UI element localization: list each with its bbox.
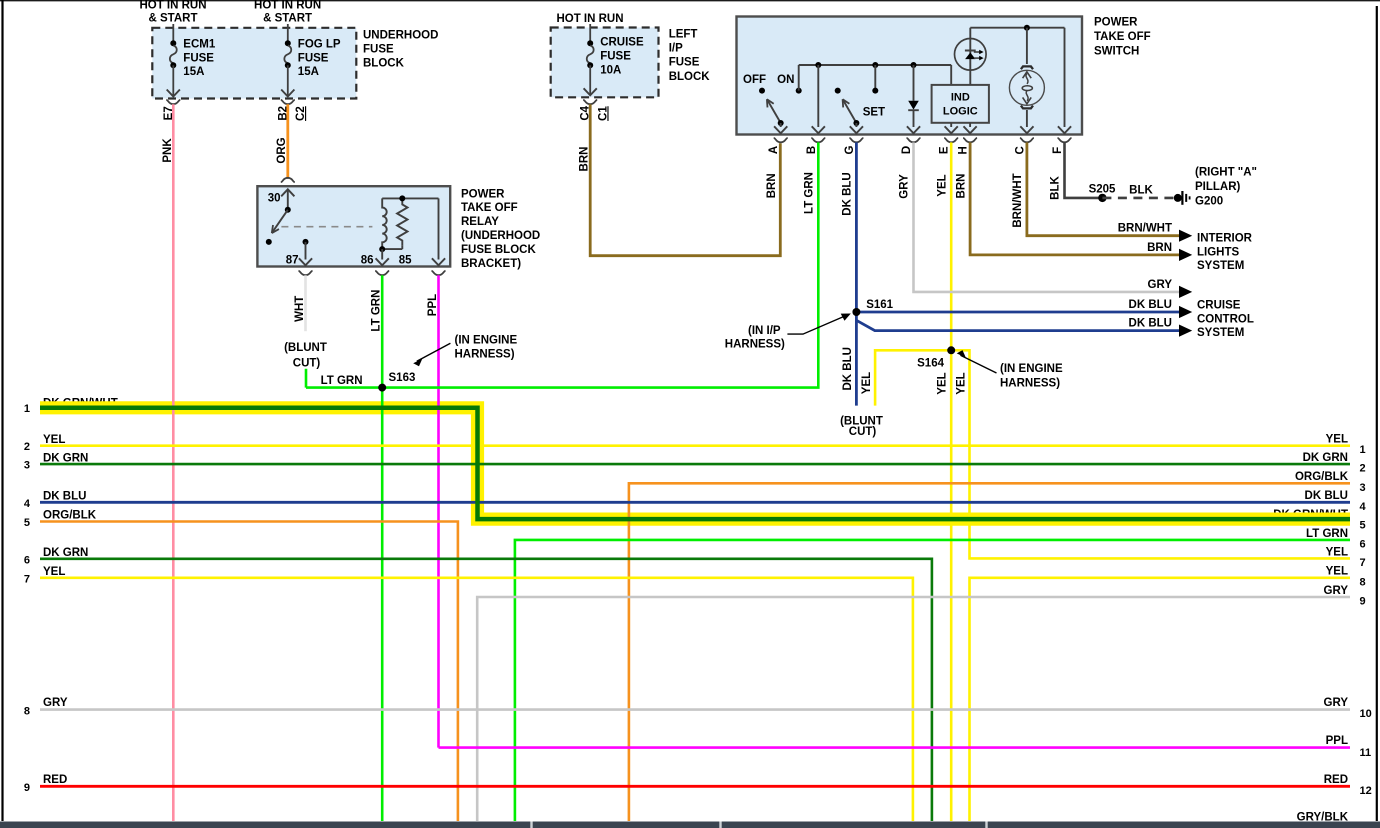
svg-text:GRY: GRY [1324,585,1349,597]
LED indicator symbol [955,39,987,71]
svg-text:DK BLU: DK BLU [1129,318,1172,330]
svg-text:CUT): CUT) [849,426,877,438]
wire DK BLU from S161 to cruise control (1) [856,311,1179,314]
svg-text:(RIGHT "A": (RIGHT "A" [1195,167,1257,179]
svg-text:PILLAR): PILLAR) [1195,181,1241,193]
svg-text:A: A [768,146,780,154]
bottom taskbar [0,822,1380,828]
svg-text:HOT IN RUN: HOT IN RUN [254,0,321,11]
frame left border [1,0,3,821]
underhood fuse block box [152,28,356,99]
svg-text:TAKE OFF: TAKE OFF [461,202,518,214]
svg-text:YEL: YEL [861,372,873,394]
svg-text:RED: RED [43,774,67,786]
power take off relay box [257,186,450,266]
svg-text:(UNDERHOOD: (UNDERHOOD [461,230,540,242]
splice S163 [378,384,386,392]
svg-text:RED: RED [1324,774,1348,786]
svg-text:HARNESS): HARNESS) [725,338,785,350]
switch internal bus [799,64,952,66]
wire YEL row R8 from right to bottom [970,578,1351,821]
svg-text:I/P: I/P [669,43,683,55]
relay resistor [397,198,407,245]
svg-text:DK BLU: DK BLU [842,172,854,215]
svg-text:YEL: YEL [1326,546,1348,558]
wire DK BLU from S161 to cruise control (2) [856,320,1179,330]
splice S164 [947,346,955,354]
svg-text:85: 85 [399,255,412,267]
svg-text:15A: 15A [298,66,319,78]
svg-text:FUSE: FUSE [669,57,700,69]
svg-text:6: 6 [1360,538,1366,550]
svg-text:LT GRN: LT GRN [1306,528,1348,540]
svg-text:HARNESS): HARNESS) [455,349,515,361]
wire DK GRN row 3/R2 [40,463,1350,466]
svg-text:LT GRN: LT GRN [804,172,816,214]
svg-text:YEL: YEL [1326,434,1348,446]
svg-text:CUT): CUT) [293,357,321,369]
svg-text:2: 2 [24,441,30,453]
wire RED row 9/R12 [40,785,1350,788]
svg-text:BLOCK: BLOCK [669,71,711,83]
svg-text:FUSE BLOCK: FUSE BLOCK [461,244,536,256]
svg-text:& START: & START [149,12,198,24]
relay NC contact dot [266,239,272,245]
svg-text:BRN: BRN [1147,242,1172,254]
wire BRN from cruise fuse to switch pin A [590,104,780,255]
left I/P fuse block box [551,28,659,98]
svg-text:FUSE: FUSE [298,52,329,64]
wire WHT from relay 87 (blunt cut) [304,275,307,331]
svg-text:DK GRN: DK GRN [43,547,88,559]
svg-text:4: 4 [24,498,31,510]
switch blade pin A [768,101,781,123]
svg-text:LT GRN: LT GRN [370,290,382,332]
svg-text:3: 3 [1360,482,1366,494]
wire BLK dashed to ground G200 [1102,197,1175,200]
svg-text:CRUISE: CRUISE [1197,300,1241,312]
svg-text:FUSE: FUSE [363,44,394,56]
svg-text:B: B [806,146,818,154]
connector B2/C2 symbol [281,100,295,104]
relay actuation dashed link [281,226,372,228]
svg-text:F: F [1052,147,1064,154]
svg-text:BRN/WHT: BRN/WHT [1118,223,1172,235]
svg-text:2: 2 [1360,463,1366,475]
svg-text:C2: C2 [295,106,307,121]
taskbar divider 2 [719,822,721,828]
pin B drop wire [817,65,819,127]
svg-text:LOGIC: LOGIC [943,106,978,118]
svg-text:LT GRN: LT GRN [321,375,363,387]
switch OFF contact dot [759,88,765,94]
svg-text:G: G [844,145,856,154]
svg-text:11: 11 [1360,747,1372,759]
splice S161 [852,308,860,316]
svg-text:WHT: WHT [294,296,306,322]
svg-text:5: 5 [24,517,30,529]
diode on pin D branch [913,65,915,101]
svg-text:H: H [958,146,970,154]
wire BRN from pin H to interior lights [970,142,1179,255]
relay coil [382,198,387,249]
svg-text:HOT IN RUN: HOT IN RUN [556,13,623,25]
svg-text:S205: S205 [1089,183,1116,195]
wire DK GRN row 6 from left to bottom [40,559,932,821]
wire PPL from relay 85 down and right to row 11 [439,275,1351,747]
svg-text:OFF: OFF [743,74,766,86]
connector C4/C1 symbol [583,100,597,104]
connector E7 symbol [166,100,180,104]
svg-text:LIGHTS: LIGHTS [1197,246,1239,258]
arrow to cruise control (GRY) [1179,286,1192,298]
svg-text:C1: C1 [597,106,609,121]
svg-text:SWITCH: SWITCH [1094,46,1139,58]
ground G200 symbol [1174,194,1182,202]
svg-text:DK BLU: DK BLU [43,491,86,503]
svg-text:(BLUNT: (BLUNT [284,342,327,354]
arrow to interior lights (BRN) [1179,249,1192,261]
svg-text:BLK: BLK [1129,185,1153,197]
frame right border [1376,6,1378,821]
connector symbol above relay pin 30 [281,178,295,182]
wire GRY row R9 from right to bottom [477,597,1350,821]
svg-text:HOT IN RUN: HOT IN RUN [139,0,206,11]
wire YEL left branch of S164 (blunt cut) [875,350,951,405]
svg-text:3: 3 [24,460,30,472]
svg-text:87: 87 [286,255,299,267]
splice S205 [1098,194,1106,202]
svg-text:POWER: POWER [461,188,505,200]
svg-text:FOG LP: FOG LP [298,38,341,50]
wire GRY row 8/R10 [40,708,1350,711]
svg-text:YEL: YEL [43,566,65,578]
relay pin 30 arrow and switch pivot [281,189,294,196]
wire ORG from fuse block to relay pin 30 [286,104,289,178]
svg-text:LEFT: LEFT [669,29,698,41]
SET upper contact stub [874,65,876,88]
svg-text:SET: SET [863,107,885,119]
wire DK BLU row 4/R4 [40,501,1350,504]
svg-text:4: 4 [1360,501,1367,513]
svg-text:YEL: YEL [1326,566,1348,578]
wire DK GRN/WHT highlighted row1-row5 with yellow highlight [40,408,1350,519]
svg-text:YEL: YEL [43,434,65,446]
arrow to cruise control (DK BLU 1) [1179,306,1192,318]
svg-text:D: D [901,146,913,154]
relay coil/resistor top wire to pin 85 [382,197,438,199]
svg-text:ON: ON [777,74,794,86]
svg-text:7: 7 [24,573,30,585]
switch pin connector symbols [774,138,788,142]
pin H drop from IND LOGIC [969,123,971,127]
wire PNK from E7 to bottom [172,104,175,821]
svg-text:DK GRN: DK GRN [43,452,88,464]
wire ORG/BLK row R3 from right to bottom [629,483,1350,821]
svg-text:9: 9 [1360,596,1366,608]
svg-text:10A: 10A [600,65,621,77]
wire DK BLU from pin G through S161 (blunt cut) [855,142,858,405]
wire LT GRN from relay 86 through S163 to bottom [381,275,384,821]
svg-text:IND: IND [951,92,970,104]
lamp symbol [1026,28,1028,64]
wire LT GRN row R6 from right to bottom [515,540,1350,821]
svg-text:30: 30 [268,193,281,205]
svg-text:YEL: YEL [936,174,948,196]
svg-text:1: 1 [1360,444,1366,456]
switch SET blade pin G [844,101,857,123]
svg-text:ECM1: ECM1 [183,38,216,50]
svg-text:YEL: YEL [936,372,948,394]
pin F drop wire [1064,28,1066,127]
taskbar divider 1 [530,822,532,828]
wire BRN/WHT from pin C to interior lights [1027,142,1179,235]
fuse ECM1 15A [172,24,174,43]
svg-text:S164: S164 [917,358,944,370]
svg-text:GRY: GRY [1324,697,1349,709]
relay NO contact to pin 87 [303,239,309,245]
svg-text:BRN: BRN [578,147,590,172]
svg-text:BRN: BRN [955,174,967,199]
svg-text:12: 12 [1360,785,1372,797]
svg-text:INTERIOR: INTERIOR [1197,233,1253,245]
svg-text:UNDERHOOD: UNDERHOOD [363,30,438,42]
relay coil bottom wire to pin 86 [382,248,402,250]
svg-text:DK BLU: DK BLU [1305,490,1348,502]
switch ON contact dot and riser [796,88,802,94]
switch top bus wire [970,27,1064,29]
wire DK GRN core of highlighted DK GRN/WHT wire [40,408,1350,519]
svg-text:BRACKET): BRACKET) [461,258,521,270]
IND LOGIC box [932,85,989,123]
svg-text:& START: & START [263,12,312,24]
svg-text:(IN ENGINE: (IN ENGINE [1000,363,1063,375]
svg-text:YEL: YEL [955,372,967,394]
svg-text:8: 8 [1360,576,1366,588]
svg-text:BRN/WHT: BRN/WHT [1012,173,1024,227]
wire PPL row R11 horizontal [439,746,1351,749]
wire YEL right branch of S164 to row 7 right [951,350,1350,558]
taskbar divider 3 [985,822,987,828]
svg-text:BRN: BRN [766,173,778,198]
wire LT GRN from pin B to S163 junction [306,142,818,387]
svg-text:6: 6 [24,554,30,566]
wire YEL row 2/R1 [40,444,1350,447]
svg-text:FUSE: FUSE [600,51,631,63]
svg-text:PNK: PNK [162,138,174,163]
svg-text:DK BLU: DK BLU [1129,299,1172,311]
svg-text:FUSE: FUSE [183,52,214,64]
svg-text:S163: S163 [389,372,416,384]
svg-text:ORG/BLK: ORG/BLK [1295,471,1349,483]
fuse CRUISE 10A [589,24,591,43]
svg-text:BLK: BLK [1050,175,1062,199]
relay switch blade [273,210,288,232]
svg-text:ORG: ORG [276,137,288,163]
svg-text:CONTROL: CONTROL [1197,313,1254,325]
frame top border [0,0,1380,2]
wire ORG/BLK row 5 from left to bottom [40,522,458,822]
svg-text:GRY: GRY [899,174,911,199]
svg-text:(IN I/P: (IN I/P [748,325,781,337]
relay connector symbols [299,271,313,275]
fuse FOG LP 15A [287,24,289,43]
svg-text:DK BLU: DK BLU [842,347,854,390]
svg-text:SYSTEM: SYSTEM [1197,260,1244,272]
svg-text:SYSTEM: SYSTEM [1197,327,1244,339]
wire YEL row 7 from left to bottom [40,578,913,821]
wire BLK from pin F to S205 [1065,142,1103,198]
power take off switch box [737,17,1083,135]
svg-text:86: 86 [361,255,374,267]
svg-text:PPL: PPL [1326,735,1348,747]
arrow to cruise control (DK BLU 2) [1179,325,1192,337]
arrow to interior lights (BRN/WHT) [1179,230,1192,242]
wire YEL from pin E through S164 to bottom [950,142,953,821]
svg-text:GRY: GRY [43,697,68,709]
bus junction dots [815,62,821,68]
svg-text:7: 7 [1360,557,1366,569]
svg-text:E: E [939,146,951,154]
wire GRY from pin D to cruise control system [914,142,1180,292]
svg-text:G200: G200 [1195,196,1223,208]
svg-text:9: 9 [24,782,30,794]
svg-text:CRUISE: CRUISE [600,37,644,49]
svg-text:(IN ENGINE: (IN ENGINE [455,334,518,346]
svg-text:GRY: GRY [1148,279,1173,291]
svg-text:HARNESS): HARNESS) [1000,378,1060,390]
svg-text:10: 10 [1360,708,1372,720]
svg-text:8: 8 [24,705,30,717]
pin E drop from IND LOGIC [950,123,952,127]
svg-text:ORG/BLK: ORG/BLK [43,510,97,522]
svg-text:DK GRN: DK GRN [1303,452,1348,464]
svg-text:5: 5 [1360,520,1366,532]
svg-text:TAKE OFF: TAKE OFF [1094,31,1151,43]
switch SET contact dot [835,88,841,94]
svg-text:1: 1 [24,403,30,415]
svg-text:BLOCK: BLOCK [363,58,405,70]
svg-text:S161: S161 [866,299,893,311]
svg-text:RELAY: RELAY [461,216,499,228]
svg-text:PPL: PPL [427,294,439,316]
svg-text:15A: 15A [183,66,204,78]
svg-text:POWER: POWER [1094,17,1138,29]
svg-text:C: C [1014,146,1026,154]
